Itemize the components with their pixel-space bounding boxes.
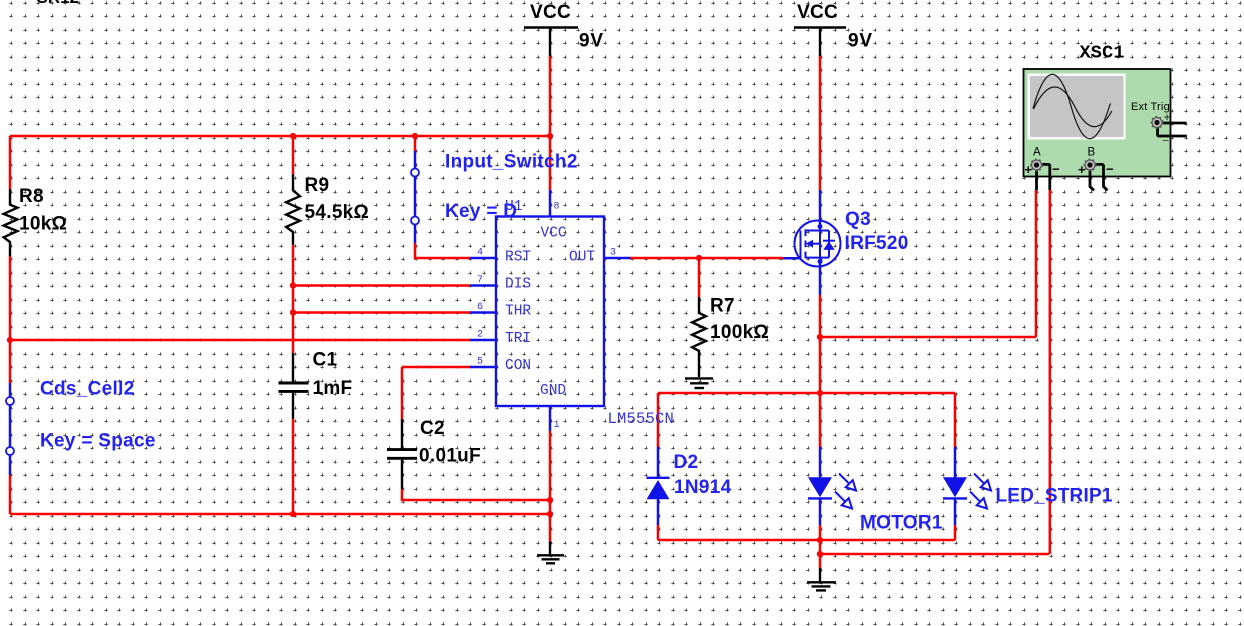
svg-text:B: B — [1088, 147, 1096, 159]
svg-text:5: 5 — [477, 357, 483, 368]
svg-text:DIS: DIS — [505, 277, 531, 293]
svg-text:THR: THR — [505, 304, 531, 320]
svg-text:1mF: 1mF — [313, 378, 353, 399]
svg-text:Cds_Cell2: Cds_Cell2 — [40, 379, 135, 400]
svg-text:A: A — [1033, 147, 1041, 159]
svg-text:C2: C2 — [420, 418, 445, 439]
svg-text:8: 8 — [554, 202, 560, 213]
svg-text:D2: D2 — [674, 452, 699, 473]
svg-text:SR12: SR12 — [37, 0, 80, 7]
svg-text:LED_STRIP1: LED_STRIP1 — [996, 486, 1113, 507]
svg-text:LM555CN: LM555CN — [608, 410, 675, 428]
svg-text:TRI: TRI — [505, 331, 531, 347]
svg-text:GND: GND — [540, 383, 566, 399]
svg-text:VCC: VCC — [530, 2, 571, 23]
svg-text:IRF520: IRF520 — [845, 233, 909, 254]
svg-text:MOTOR1: MOTOR1 — [860, 513, 943, 534]
svg-text:1: 1 — [554, 420, 560, 431]
svg-text:VCC: VCC — [541, 226, 567, 242]
svg-text:R8: R8 — [19, 186, 44, 207]
svg-text:+: + — [1025, 162, 1033, 177]
svg-text:10kΩ: 10kΩ — [19, 214, 67, 235]
svg-text:VCC: VCC — [797, 2, 838, 23]
svg-text:1N914: 1N914 — [674, 477, 732, 498]
svg-text:+: + — [1078, 162, 1086, 177]
svg-text:3: 3 — [610, 248, 616, 259]
svg-text:0.01uF: 0.01uF — [419, 446, 481, 467]
svg-text:R7: R7 — [710, 296, 735, 317]
svg-text:C1: C1 — [313, 350, 338, 371]
svg-text:Key = Space: Key = Space — [40, 431, 156, 452]
svg-text:−: − — [1052, 162, 1060, 177]
svg-text:100kΩ: 100kΩ — [710, 322, 769, 343]
svg-text:7: 7 — [477, 275, 483, 286]
svg-text:9V: 9V — [579, 31, 604, 52]
svg-text:−: − — [1106, 162, 1114, 177]
svg-text:R9: R9 — [305, 175, 330, 196]
svg-text:XSC1: XSC1 — [1080, 43, 1125, 64]
svg-text:CON: CON — [505, 358, 531, 374]
svg-text:54.5kΩ: 54.5kΩ — [305, 202, 370, 223]
svg-text:9V: 9V — [848, 31, 873, 52]
svg-text:Input_Switch2: Input_Switch2 — [445, 152, 578, 173]
svg-text:2: 2 — [477, 330, 483, 341]
svg-text:+: + — [1164, 110, 1171, 124]
svg-text:OUT: OUT — [569, 250, 595, 266]
svg-text:4: 4 — [477, 248, 483, 259]
svg-text:U1: U1 — [505, 199, 522, 215]
svg-text:6: 6 — [477, 302, 483, 313]
svg-text:Q3: Q3 — [845, 209, 871, 230]
svg-text:RST: RST — [505, 250, 531, 266]
svg-text:−: − — [1162, 134, 1169, 148]
